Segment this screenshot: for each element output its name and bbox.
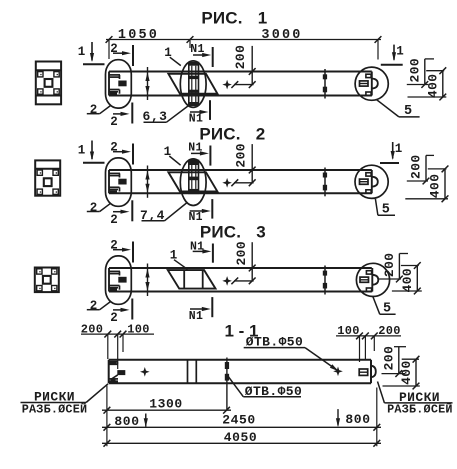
dimensions 200/400 right РИС 3 — [379, 252, 422, 294]
center mark star РИС 3 — [222, 276, 232, 286]
section mark 1 left РИС 1 — [78, 42, 105, 64]
svg-text:N1: N1 — [189, 310, 203, 323]
leader label 2 РИС 1 — [87, 103, 111, 117]
label 6,3 РИС 1 — [143, 105, 190, 125]
section mark N1 top РИС 3 — [190, 241, 213, 263]
detail circle right end РИС 1 — [355, 67, 388, 100]
label 7,4 РИС 2 — [140, 203, 186, 223]
section mark 2 bottom РИС 3 — [110, 299, 132, 326]
dimensions 200/400 right РИС 1 — [407, 58, 447, 101]
svg-text:3: 3 — [256, 222, 265, 241]
section mark 2 top РИС 3 — [110, 238, 133, 262]
dimension 1300 — [102, 396, 231, 413]
svg-text:РАЗБ.ØСЕЙ: РАЗБ.ØСЕЙ — [22, 402, 88, 416]
section mark 2 bottom РИС 2 — [110, 200, 132, 227]
svg-text:200: 200 — [408, 58, 423, 83]
dimensions 200/100 top left — [81, 322, 154, 369]
dimension label 1050 — [118, 28, 159, 43]
detail oval left end РИС 2 — [106, 158, 132, 206]
section hole axis with anchors — [225, 358, 229, 411]
svg-text:100: 100 — [337, 324, 360, 338]
section mark 1 right РИС 2 — [380, 142, 402, 163]
section left anchor flag — [111, 370, 126, 379]
detail oval left end РИС 3 — [106, 256, 132, 304]
svg-text:5: 5 — [404, 104, 412, 119]
joint anchors РИС 2 — [323, 168, 327, 197]
beam left end profile РИС 3 — [109, 268, 127, 292]
svg-text:200: 200 — [234, 241, 249, 266]
height dimension 400 arrows РИС 1 — [145, 67, 149, 100]
anchor parallelogram РИС 1 — [168, 74, 217, 94]
section mark 2 top РИС 1 — [110, 42, 133, 66]
beam right end profile РИС 3 — [360, 268, 378, 292]
svg-text:РИС.: РИС. — [199, 124, 240, 143]
label РИСКИ РАЗБ.ОСЕЙ right — [378, 382, 453, 417]
joint anchors РИС 3 — [323, 266, 327, 295]
svg-text:200: 200 — [81, 322, 104, 336]
section beam tongue — [371, 366, 376, 378]
beam РИС 3 top edge — [109, 267, 372, 269]
joint anchors РИС 1 — [323, 69, 327, 99]
svg-text:N1: N1 — [189, 112, 203, 125]
extension lines bottom — [107, 386, 377, 447]
title РИС. 2 — [199, 124, 265, 143]
svg-text:2450: 2450 — [222, 412, 256, 427]
svg-text:5: 5 — [382, 203, 390, 218]
section lifting star right — [333, 367, 343, 377]
svg-text:2: 2 — [90, 299, 98, 313]
center mark star РИС 1 — [222, 80, 232, 90]
cross-section symbol 1 — [36, 62, 61, 105]
dimension line 1050/3000 — [106, 36, 382, 59]
svg-text:400: 400 — [426, 73, 441, 98]
dimension label 3000 — [261, 28, 302, 43]
label 5 РИС 2 — [375, 199, 395, 218]
svg-text:N1: N1 — [188, 211, 202, 224]
detail ellipse middle РИС 2 — [180, 159, 206, 206]
svg-text:200: 200 — [378, 324, 401, 338]
section mark N1 top РИС 2 — [188, 141, 210, 165]
beam left end profile РИС 1 — [109, 72, 127, 96]
svg-text:2: 2 — [256, 124, 265, 143]
svg-text:1050: 1050 — [118, 28, 159, 43]
beam РИС 1 bottom edge — [109, 95, 372, 97]
svg-text:5: 5 — [383, 302, 391, 317]
section left bottom step — [109, 379, 118, 383]
svg-text:1: 1 — [258, 9, 267, 28]
dimension 4050 — [102, 430, 381, 447]
beam РИС 1 top edge — [109, 71, 372, 73]
label 5 РИС 1 — [377, 100, 420, 120]
svg-text:200: 200 — [409, 154, 424, 179]
title 1 - 1 — [224, 321, 258, 340]
svg-text:200: 200 — [233, 45, 248, 70]
leader label 2 РИС 3 — [87, 299, 111, 313]
section mark 1 right РИС 1 — [381, 44, 404, 64]
svg-text:1: 1 — [395, 142, 403, 156]
label 1 РИС 2 — [164, 145, 181, 165]
beam left end profile РИС 2 — [109, 170, 127, 193]
svg-text:200: 200 — [382, 346, 397, 371]
section plate в — [359, 369, 368, 375]
svg-text:РАЗБ.ØСЕЙ: РАЗБ.ØСЕЙ — [387, 403, 453, 417]
cross-section symbol 2 — [35, 160, 60, 195]
section beam outline — [109, 360, 371, 383]
height dimension 400 arrows РИС 2 — [145, 166, 149, 198]
svg-text:1: 1 — [78, 45, 86, 59]
svg-text:400: 400 — [399, 360, 414, 385]
detail ellipse middle РИС 1 — [180, 61, 206, 108]
section mark 2 bottom РИС 1 — [110, 103, 132, 130]
label РИСКИ РАЗБ.ОСЕЙ left — [21, 384, 109, 417]
svg-text:200: 200 — [382, 252, 397, 277]
svg-text:3000: 3000 — [261, 28, 302, 43]
label 1 РИС 1 — [164, 46, 181, 65]
svg-text:2: 2 — [110, 213, 118, 227]
section mark N1 top РИС 1 — [190, 43, 212, 67]
dimensions 200/400 right РИС 2 — [405, 154, 448, 202]
svg-text:400: 400 — [428, 174, 443, 199]
section joint lines — [188, 360, 197, 383]
svg-text:1300: 1300 — [149, 396, 183, 411]
anchor parallelogram РИС 3 — [168, 270, 216, 289]
dimension 200 middle РИС 2 — [231, 143, 255, 186]
svg-text:100: 100 — [127, 322, 150, 336]
section mark N1 bottom РИС 3 — [189, 297, 213, 323]
anchor ladder РИС 2 — [189, 160, 199, 193]
dimensions 100/200 top right — [336, 324, 401, 362]
height dimension 400 arrows РИС 3 — [145, 264, 149, 297]
dimension 200 middle РИС 1 — [231, 45, 255, 88]
section mark 2 top РИС 2 — [110, 140, 133, 164]
section lifting star left — [140, 367, 150, 377]
svg-text:400: 400 — [400, 268, 415, 293]
svg-text:1: 1 — [396, 44, 404, 58]
svg-text:200: 200 — [234, 143, 249, 168]
label 1 РИС 3 — [170, 249, 188, 270]
dimension 200 middle РИС 3 — [231, 241, 255, 284]
label 5 РИС 3 — [373, 296, 396, 317]
anchor ladder РИС 1 — [189, 63, 199, 106]
svg-text:2: 2 — [110, 311, 118, 325]
title РИС. 3 — [200, 222, 266, 241]
svg-text:РИС.: РИС. — [200, 222, 241, 241]
svg-text:2: 2 — [90, 103, 98, 117]
svg-text:1: 1 — [78, 144, 86, 158]
detail circle right end РИС 2 — [355, 165, 388, 198]
label ОТВ.Ф50 bottom — [228, 376, 303, 399]
label ОТВ.Ф50 top — [244, 334, 339, 371]
svg-text:800: 800 — [114, 414, 139, 429]
center mark star РИС 2 — [222, 178, 232, 188]
svg-text:800: 800 — [345, 412, 370, 427]
beam right end profile РИС 2 — [360, 170, 378, 193]
section mark N1 bottom РИС 2 — [188, 199, 212, 224]
beam right end profile РИС 1 — [360, 72, 378, 96]
beam РИС 2 top edge — [109, 169, 372, 171]
svg-text:РИС.: РИС. — [201, 9, 242, 28]
section mark 1 left РИС 2 — [78, 141, 105, 163]
section left top step — [109, 362, 118, 365]
dimensions 200/400 section right — [382, 346, 420, 390]
beam РИС 2 bottom edge — [109, 192, 372, 194]
section mark N1 bottom РИС 1 — [189, 100, 210, 125]
leader label 2 РИС 2 — [87, 201, 111, 215]
title РИС. 1 — [201, 9, 267, 28]
detail circle right end РИС 3 — [356, 263, 389, 296]
dimension 800/2450/800 — [102, 409, 381, 431]
detail oval left end РИС 1 — [106, 60, 132, 108]
svg-text:2: 2 — [110, 115, 118, 129]
svg-text:2: 2 — [90, 201, 98, 215]
beam РИС 3 bottom edge — [109, 291, 372, 293]
cross-section symbol 3 — [35, 268, 59, 293]
svg-text:4050: 4050 — [224, 430, 258, 445]
anchor parallelogram РИС 2 — [168, 172, 217, 191]
